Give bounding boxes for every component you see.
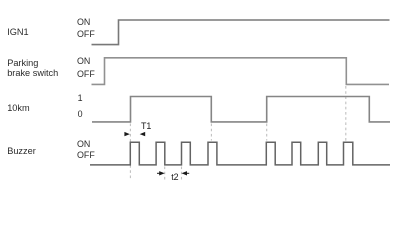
Parking brake switch waveform — [92, 58, 390, 85]
10km waveform — [92, 97, 390, 122]
T1 dimension right arrow (points left at pulse1 fall) — [140, 132, 146, 136]
dashed drop line at 10km first falling edge — [210, 124, 212, 141]
dashed drop line at 10km first rising edge — [129, 124, 131, 181]
annotation text T1 — [141, 121, 151, 131]
label Parking brake switch — [7, 58, 58, 79]
level labels 1/0 for 10km — [78, 91, 83, 122]
T1 dimension left arrow (points right at pulse1 rise) — [124, 132, 129, 136]
IGN1 waveform — [92, 20, 390, 45]
level labels ON/OFF for Buzzer — [77, 139, 95, 162]
Buzzer waveform (pulse train) — [90, 142, 390, 165]
t2 dimension right arrow (points left at pulse3 rise) — [182, 171, 188, 175]
dashed drop line at 10km second rising edge — [266, 124, 268, 141]
t2 dimension left arrow (points right at pulse2 fall) — [159, 171, 165, 175]
label Buzzer — [7, 146, 36, 157]
label 10km — [7, 103, 29, 114]
dashed drop line at buzzer pulse3 rising edge (t2 right bound) — [181, 167, 183, 181]
dashed drop line at buzzer pulse2 falling edge (t2 left bound) — [164, 167, 166, 181]
label IGN1 — [7, 27, 28, 38]
level labels ON/OFF for IGN1 — [77, 16, 95, 40]
annotation text t2 — [171, 172, 178, 182]
dashed drop line at parking-brake falling edge — [345, 86, 347, 141]
level labels ON/OFF for Parking brake switch — [77, 55, 95, 81]
